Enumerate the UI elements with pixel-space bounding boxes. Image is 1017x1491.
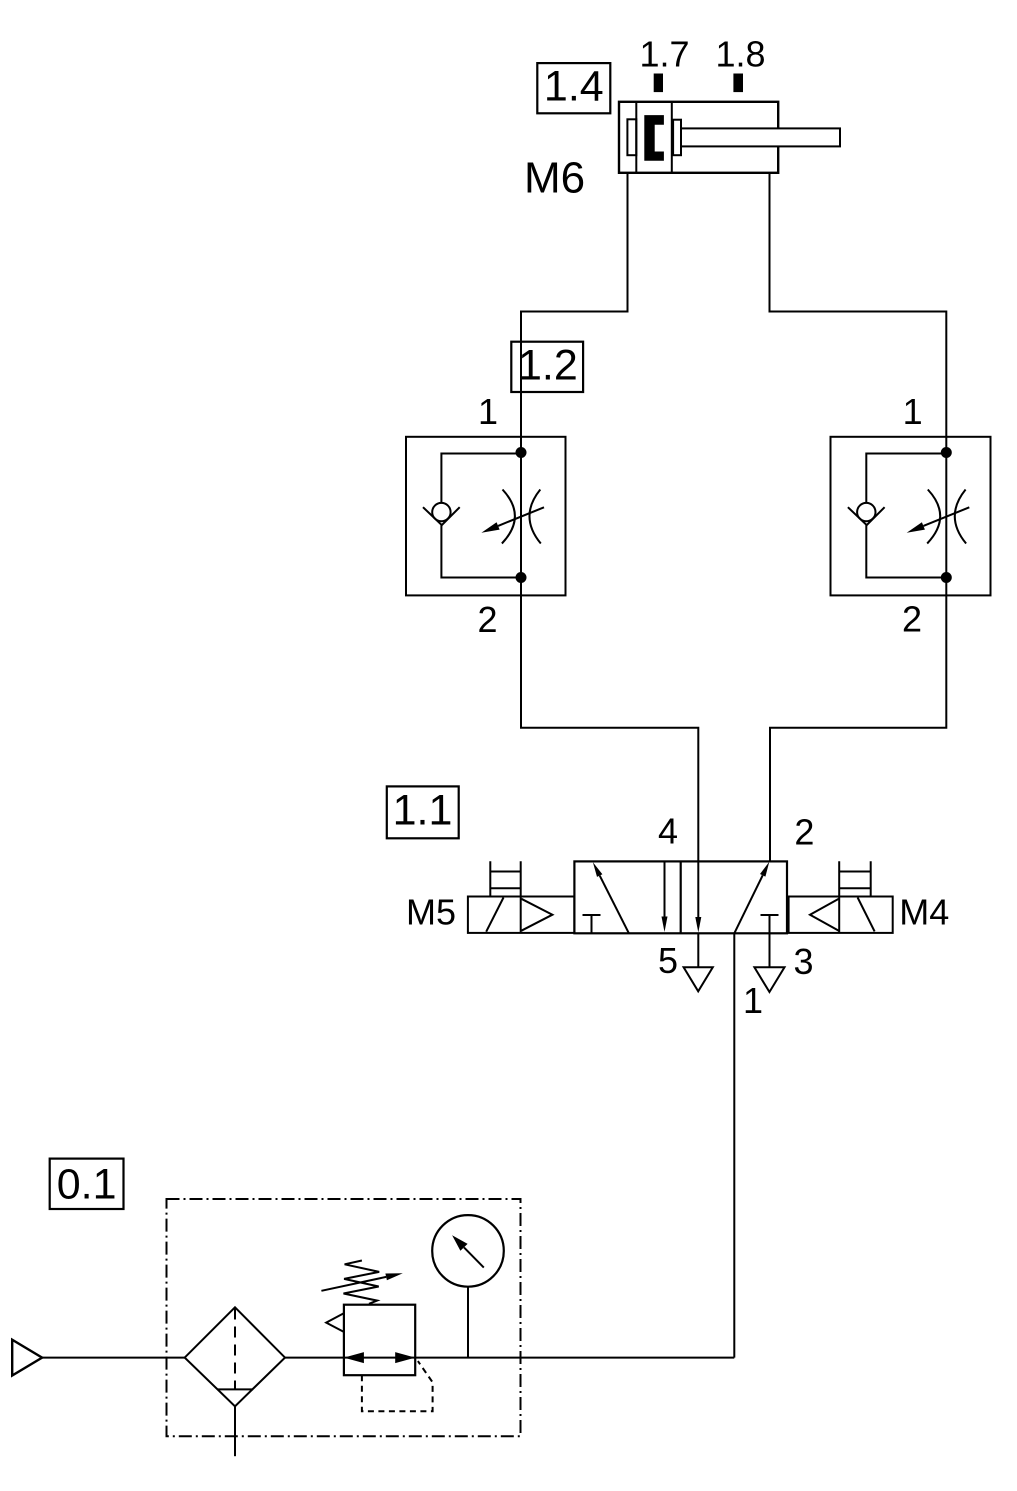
- flow control valve left (1.2) box: [406, 437, 566, 596]
- left valve throttle arcs: [502, 490, 541, 544]
- right valve check circle: [857, 503, 875, 521]
- valve left chamber 2-3 down arrow: [662, 861, 668, 932]
- filter drain stem: [234, 1406, 236, 1456]
- flow control valve right box: [831, 437, 991, 596]
- solenoid M4 box: [789, 897, 893, 933]
- regulator spring: [344, 1261, 380, 1304]
- svg-text:2: 2: [902, 599, 922, 640]
- svg-text:4: 4: [658, 811, 678, 852]
- right valve port dot 2: [941, 572, 952, 583]
- svg-text:M5: M5: [406, 891, 456, 932]
- svg-text:1.2: 1.2: [518, 341, 578, 389]
- svg-text:5: 5: [658, 940, 678, 981]
- right valve check seat: [848, 507, 885, 525]
- wire main supply line: [42, 1357, 734, 1359]
- svg-text:2: 2: [794, 812, 814, 853]
- valve left chamber 1-4 diagonal arrow: [593, 862, 629, 933]
- cylinder piston plate: [673, 120, 681, 156]
- solenoid M5 box: [468, 897, 575, 933]
- valve left chamber blocked port T: [583, 915, 601, 933]
- compressed air source triangle: [12, 1340, 42, 1376]
- svg-text:1.1: 1.1: [393, 787, 453, 835]
- svg-text:1: 1: [743, 980, 763, 1021]
- filter diamond: [185, 1307, 285, 1406]
- svg-text:1.7: 1.7: [639, 34, 689, 75]
- regulator dashed feedback loop: [362, 1361, 433, 1411]
- label box 1.1: [387, 786, 459, 838]
- exhaust triangle port 3: [754, 967, 784, 992]
- left valve check circle: [432, 503, 450, 521]
- svg-text:1: 1: [903, 391, 923, 432]
- regulator flow arrows: [344, 1352, 415, 1363]
- manual override right: [839, 861, 871, 896]
- svg-text:M6: M6: [524, 154, 585, 203]
- label box 0.1: [50, 1159, 124, 1209]
- wire cylinder right port to right flow valve: [770, 173, 947, 862]
- wire cylinder left port to left flow valve: [521, 173, 698, 862]
- svg-text:2: 2: [477, 599, 497, 640]
- svg-text:0.1: 0.1: [57, 1160, 117, 1208]
- left valve check seat: [423, 507, 460, 525]
- svg-text:3: 3: [793, 941, 813, 982]
- gauge needle: [452, 1235, 484, 1267]
- right valve throttle arrow: [907, 507, 970, 532]
- svg-text:1.8: 1.8: [715, 34, 765, 75]
- port 3 line: [769, 915, 771, 967]
- cylinder piston magnet: [644, 115, 664, 161]
- cylinder piston rod: [681, 128, 840, 146]
- label box 1.4: [537, 62, 610, 113]
- wire valve port1 to supply line: [733, 933, 735, 1357]
- label box 1.2: [511, 341, 583, 392]
- cylinder 1.4 body: [619, 102, 778, 173]
- valve 1.1 body: [574, 861, 787, 933]
- valve right chamber blocked port T: [761, 914, 779, 916]
- sensor tick 1.8: [733, 74, 743, 93]
- solenoid M4 pilot triangle: [810, 899, 839, 931]
- valve right chamber 4-5 down arrow: [695, 861, 701, 932]
- sensor tick 1.7: [654, 74, 663, 93]
- regulator pilot triangle: [326, 1313, 344, 1332]
- pressure gauge: [432, 1215, 504, 1358]
- svg-text:1.4: 1.4: [544, 62, 604, 110]
- port 5 line: [697, 933, 699, 967]
- svg-text:1: 1: [478, 391, 498, 432]
- right valve port dot 1: [941, 447, 952, 458]
- filter dashed center line: [234, 1309, 236, 1390]
- valve right chamber 1-2 diagonal arrow: [734, 862, 769, 934]
- solenoid M5 pilot triangle: [521, 899, 552, 931]
- left valve port dot 2: [516, 572, 527, 583]
- svg-text:M4: M4: [899, 892, 949, 933]
- cylinder cushion rect: [627, 119, 636, 155]
- manual override left: [490, 861, 520, 896]
- service unit dash-dot frame: [167, 1199, 521, 1436]
- regulator box: [344, 1305, 415, 1376]
- right valve bypass loop: [866, 454, 946, 578]
- left valve throttle arrow: [481, 507, 544, 532]
- regulator adjustment arrow: [321, 1273, 402, 1291]
- left valve port dot 1: [516, 447, 527, 458]
- exhaust triangle port 5: [684, 967, 713, 991]
- left valve bypass loop: [441, 454, 521, 578]
- filter separator chord: [217, 1388, 253, 1390]
- right valve throttle arcs: [927, 490, 966, 544]
